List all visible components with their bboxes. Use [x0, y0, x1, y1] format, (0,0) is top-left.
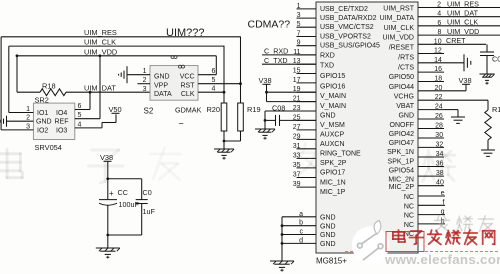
wire C_TXD — [262, 63, 316, 65]
resistor R18 — [40, 89, 66, 96]
svg-text:100uF: 100uF — [119, 200, 140, 209]
svg-text:SRV054: SRV054 — [35, 143, 62, 152]
svg-text:MIC_1P: MIC_1P — [320, 189, 346, 196]
svg-text:VCHG: VCHG — [394, 94, 414, 101]
svg-text:VPP: VPP — [154, 82, 168, 89]
svg-text:10: 10 — [434, 38, 442, 45]
label C0 bottom — [143, 188, 152, 197]
capacitor C0 bottom — [106, 200, 147, 237]
svg-text:17: 17 — [293, 77, 301, 84]
svg-text:V_MAIN: V_MAIN — [320, 93, 346, 100]
svg-text:5: 5 — [297, 21, 301, 28]
svg-text:GND: GND — [320, 223, 336, 230]
svg-text:SPK_2P: SPK_2P — [320, 160, 347, 167]
ground at S2 pin1 — [119, 66, 127, 83]
svg-text:6: 6 — [78, 103, 82, 110]
ic UIM socket S2 — [150, 66, 198, 101]
svg-text:C0: C0 — [143, 188, 152, 197]
svg-text:UIM_VDD: UIM_VDD — [447, 27, 479, 36]
labels left column MG815+ — [320, 6, 380, 248]
watermark logo circle — [352, 221, 389, 264]
ground under CRET cap — [480, 74, 495, 85]
wire V38 to V_MAIN pins — [265, 84, 316, 101]
svg-text:CLK: CLK — [181, 91, 195, 98]
svg-text:MG815+: MG815+ — [316, 257, 347, 266]
svg-text:UIM_CLK: UIM_CLK — [384, 25, 415, 32]
svg-text:6: 6 — [437, 20, 441, 27]
svg-text:UIM_RST: UIM_RST — [383, 6, 414, 13]
label C_TXD — [264, 56, 288, 65]
svg-text:RST: RST — [181, 82, 196, 89]
svg-text:USB_CE/TXD2: USB_CE/TXD2 — [320, 6, 368, 13]
svg-text:R20: R20 — [206, 105, 220, 114]
wire cap loop — [108, 179, 142, 200]
label SRV054 — [35, 143, 62, 152]
pin 3 S2 DATA — [143, 86, 147, 93]
wire GND pin24 — [444, 110, 458, 117]
svg-text:4: 4 — [78, 121, 82, 128]
svg-text:USB_DATA/RXD2: USB_DATA/RXD2 — [320, 15, 377, 22]
svg-text:20: 20 — [435, 85, 443, 92]
capacitor C08 — [265, 115, 316, 126]
svg-text:4: 4 — [212, 85, 216, 92]
pins 1-39 left of MG815+ — [293, 3, 316, 188]
svg-text:39: 39 — [293, 181, 301, 188]
svg-text:40: 40 — [436, 180, 444, 187]
pin 5 SRV054 — [75, 112, 100, 119]
resistor R17 — [485, 100, 491, 150]
svg-text:GND: GND — [320, 232, 336, 239]
svg-text:TXD: TXD — [320, 63, 334, 70]
wire UIM_RES right — [444, 7, 500, 9]
svg-text:C_TXD: C_TXD — [264, 56, 288, 65]
pin 2 SRV054 — [7, 115, 34, 122]
svg-text:b: b — [299, 220, 303, 227]
svg-text:C0: C0 — [492, 55, 500, 64]
svg-text:GPIO15: GPIO15 — [320, 73, 345, 80]
svg-text:UIM_DAT: UIM_DAT — [447, 9, 479, 18]
ground at pin24 — [451, 117, 465, 123]
svg-text:V50: V50 — [109, 105, 122, 114]
svg-text:18: 18 — [434, 76, 442, 83]
svg-text:/RESET: /RESET — [389, 44, 415, 51]
power label V50 — [109, 105, 122, 114]
power label V38 mid — [259, 76, 272, 85]
label 1uF — [143, 207, 156, 216]
svg-text:SPK_1P: SPK_1P — [388, 159, 415, 166]
pin 6 SRV054 — [75, 103, 90, 110]
svg-text:MIC_1N: MIC_1N — [320, 179, 346, 186]
pin 2 S2 VPP — [138, 77, 151, 84]
svg-text:34: 34 — [436, 151, 444, 158]
label R19 — [247, 105, 261, 114]
svg-text:GND: GND — [320, 214, 336, 221]
svg-text:C08: C08 — [272, 103, 285, 112]
label + CC — [109, 188, 128, 198]
pin 5 S2 RST — [198, 77, 242, 85]
svg-text:21: 21 — [293, 96, 301, 103]
svg-text:2: 2 — [437, 2, 441, 9]
wire UIM_DAT right — [444, 16, 500, 18]
svg-text:9: 9 — [297, 40, 301, 47]
resistor R20 — [221, 46, 227, 141]
svg-text:IO3: IO3 — [56, 127, 67, 134]
label 100uF — [119, 200, 140, 209]
label CRET — [446, 36, 466, 45]
title CDMA?? — [248, 19, 291, 31]
svg-text:GPIO44: GPIO44 — [389, 84, 414, 91]
ic SRV054 SR2 — [33, 103, 74, 139]
label MG815+ — [316, 257, 347, 266]
svg-text:GPIO16: GPIO16 — [320, 83, 345, 90]
svg-text:V38: V38 — [259, 76, 272, 85]
wire UIM_CLK right — [444, 25, 500, 27]
ground bottom left — [96, 248, 120, 259]
watermark outline text — [434, 216, 493, 232]
svg-text:f: f — [443, 199, 445, 206]
svg-text:2: 2 — [26, 115, 30, 122]
svg-text:MIC_2P: MIC_2P — [389, 184, 415, 191]
label UIM_VDD right — [447, 27, 479, 36]
svg-text:REF: REF — [55, 119, 69, 126]
svg-text:GND: GND — [36, 119, 52, 126]
wire V50 stub — [102, 114, 116, 128]
svg-text:1: 1 — [297, 3, 301, 10]
svg-text:6: 6 — [212, 68, 216, 75]
label C0 right — [492, 55, 500, 64]
label UIM_VDD — [84, 47, 117, 56]
wire DAT to SRV pin6 — [89, 91, 92, 110]
faint watermark characters — [0, 143, 455, 182]
pin 4 S2 CLK — [198, 85, 225, 93]
watermark url text — [384, 252, 500, 267]
svg-text:12: 12 — [434, 48, 442, 55]
label UIM_DAT right — [447, 9, 479, 18]
ground under C08 — [255, 129, 275, 140]
resistor R19 — [238, 37, 244, 142]
wire UIM_VDD net — [16, 54, 217, 92]
svg-text:32: 32 — [435, 141, 443, 148]
label UIM_DAT — [84, 84, 116, 93]
pin 1 SRV054 — [9, 106, 34, 113]
label UIM_CLK — [84, 38, 116, 47]
svg-text:GND: GND — [320, 113, 336, 120]
svg-text:V_MAIN: V_MAIN — [320, 103, 346, 110]
svg-text:36: 36 — [436, 161, 444, 168]
svg-text:V_MSM: V_MSM — [320, 122, 345, 129]
svg-text:USB_VMC/CTS2: USB_VMC/CTS2 — [320, 24, 374, 31]
svg-text:16: 16 — [434, 66, 442, 73]
svg-text:3: 3 — [297, 12, 301, 19]
svg-text:19: 19 — [293, 86, 301, 93]
wire UIM_RES net — [1, 37, 240, 130]
svg-text:24: 24 — [435, 104, 443, 111]
contact symbol at pin14 — [444, 54, 471, 71]
svg-text:13: 13 — [293, 58, 301, 65]
svg-text:NC: NC — [404, 222, 414, 229]
watermark red dashes — [345, 251, 498, 253]
svg-text:SPK_1N: SPK_1N — [387, 149, 414, 156]
svg-text:~: ~ — [179, 118, 184, 128]
svg-text:5: 5 — [212, 77, 216, 84]
watermark red text — [393, 230, 495, 245]
svg-text:22: 22 — [435, 94, 443, 101]
svg-text:DATA: DATA — [154, 91, 172, 98]
svg-text:CDMA??: CDMA?? — [248, 19, 291, 31]
svg-text:a: a — [299, 211, 303, 218]
svg-text:1uF: 1uF — [143, 207, 156, 216]
label UIM_RES right — [447, 0, 479, 8]
svg-text:R19: R19 — [247, 105, 261, 114]
svg-text:2: 2 — [143, 77, 147, 84]
svg-text:NC: NC — [404, 213, 414, 220]
svg-text:37: 37 — [293, 172, 301, 179]
svg-text:e: e — [441, 190, 445, 197]
label c8 mark above S2 — [171, 56, 177, 59]
label GDMAK — [175, 106, 202, 115]
svg-text:d: d — [299, 237, 303, 244]
svg-text:/RTS: /RTS — [398, 55, 414, 62]
svg-text:15: 15 — [293, 68, 301, 75]
svg-text:NC: NC — [404, 203, 414, 210]
wire UIM_VDD right — [444, 34, 500, 36]
svg-text:GND: GND — [398, 112, 414, 119]
svg-text:33: 33 — [293, 152, 301, 159]
pin 4 SRV054 — [75, 121, 102, 128]
svg-text:GPIO50: GPIO50 — [389, 74, 414, 81]
svg-text:USB_VPORTS2: USB_VPORTS2 — [320, 34, 371, 41]
svg-text:USB_SUS/GPIO45: USB_SUS/GPIO45 — [320, 42, 380, 49]
wire GND pin23 — [264, 111, 316, 129]
svg-text:UIM_CLK: UIM_CLK — [447, 18, 478, 27]
pins e-h right of MG815+ — [418, 190, 445, 225]
svg-text:30: 30 — [435, 132, 443, 139]
capacitor C0 on CRET — [480, 44, 494, 74]
label tilde under S2 — [179, 118, 184, 128]
label C08 — [272, 103, 285, 112]
svg-text:VCC: VCC — [180, 74, 195, 81]
svg-text:AUXCP: AUXCP — [320, 132, 344, 139]
svg-text:R18: R18 — [42, 81, 56, 90]
svg-text:GPIO17: GPIO17 — [320, 170, 345, 177]
svg-text:IO2: IO2 — [37, 127, 48, 134]
svg-text:31: 31 — [293, 143, 301, 150]
label R20 — [206, 105, 220, 114]
label C_RXD — [264, 47, 288, 56]
svg-text:IO4: IO4 — [56, 110, 67, 117]
svg-text:7: 7 — [297, 31, 301, 38]
svg-text:8: 8 — [438, 29, 442, 36]
svg-text:NC: NC — [404, 194, 414, 201]
svg-text:35: 35 — [293, 162, 301, 169]
svg-text:UIM_RES: UIM_RES — [84, 28, 117, 37]
svg-text:27: 27 — [293, 124, 301, 131]
svg-text:28: 28 — [435, 123, 443, 130]
ground under R20 — [214, 149, 234, 160]
svg-text:5: 5 — [78, 112, 82, 119]
label S2 — [144, 107, 154, 116]
svg-text:GND: GND — [154, 74, 170, 81]
svg-text:CC: CC — [118, 188, 128, 197]
labels right column MG815+ — [380, 6, 415, 239]
svg-text:V38: V38 — [459, 76, 472, 85]
svg-text:R17: R17 — [492, 105, 500, 114]
capacitor CC 100uF — [99, 200, 117, 248]
label R18 — [42, 81, 56, 90]
pins 2-40 right of MG815+ — [418, 2, 444, 187]
svg-text:26: 26 — [435, 113, 443, 120]
svg-text:23: 23 — [293, 105, 301, 112]
svg-text:MIC_2N: MIC_2N — [388, 177, 414, 184]
label UIM_RES — [84, 28, 117, 37]
svg-text:/CTS: /CTS — [398, 64, 414, 71]
svg-text:V38: V38 — [100, 153, 113, 162]
svg-text:14: 14 — [434, 57, 442, 64]
svg-text:GPIO54: GPIO54 — [389, 168, 414, 175]
title UIM??? — [166, 27, 205, 39]
svg-text:3: 3 — [26, 123, 30, 130]
svg-text:c: c — [300, 229, 304, 236]
svg-text:UIM???: UIM??? — [166, 27, 205, 39]
svg-text:GPIO47: GPIO47 — [389, 140, 414, 147]
label SR2 — [35, 96, 49, 105]
svg-text:3: 3 — [143, 86, 147, 93]
svg-text:www.elecfans.com: www.elecfans.com — [384, 252, 500, 267]
svg-text:25: 25 — [293, 114, 301, 121]
svg-text:ONOFF: ONOFF — [390, 122, 415, 129]
svg-text:38: 38 — [436, 170, 444, 177]
svg-text:1: 1 — [26, 106, 30, 113]
svg-text:1: 1 — [143, 68, 147, 75]
svg-text:AUXCN: AUXCN — [320, 141, 345, 148]
pins a-d left of MG815+ — [282, 211, 316, 245]
wire V38 rail down — [106, 161, 109, 199]
ground under R17 — [481, 150, 495, 156]
wire R20 R19 bottoms — [223, 140, 241, 149]
pin 1 S2 GND — [127, 68, 150, 75]
power label V38 bottom — [100, 153, 113, 162]
wire UIM_CLK net — [9, 46, 224, 112]
svg-text:VBAT: VBAT — [396, 103, 414, 110]
svg-text:UIM_RES: UIM_RES — [447, 0, 479, 8]
label c8 mark inside S2 — [179, 65, 185, 68]
svg-text:GPIO42: GPIO42 — [389, 131, 414, 138]
svg-text:GND: GND — [320, 241, 336, 248]
svg-text:g: g — [441, 209, 445, 216]
label R17 — [492, 105, 500, 114]
ic MG815+ body — [316, 2, 418, 253]
svg-text:29: 29 — [293, 133, 301, 140]
svg-text:UIM_DATA: UIM_DATA — [380, 15, 415, 22]
svg-text:RXD: RXD — [320, 52, 335, 59]
pin 6 S2 VCC — [198, 56, 216, 75]
pin 3 SRV054 — [1, 123, 33, 130]
svg-text:C_RXD: C_RXD — [264, 47, 288, 56]
ground at SRV054 pin2 — [0, 116, 7, 127]
wire C_RXD — [262, 54, 316, 56]
label UIM_CLK right — [447, 18, 478, 27]
svg-text:GDMAK: GDMAK — [175, 106, 202, 115]
ground under abcd bus — [270, 261, 294, 272]
svg-text:+: + — [109, 189, 114, 198]
wire VBAT pin22 — [444, 99, 488, 101]
svg-text:UIM_CLK: UIM_CLK — [84, 38, 116, 47]
svg-text:4: 4 — [437, 11, 441, 18]
wire abcd ground bus — [281, 217, 284, 261]
wire UIM_DAT net — [17, 91, 150, 93]
wire VDD to REF — [99, 54, 102, 118]
watermark red box — [386, 232, 424, 252]
svg-text:S2: S2 — [144, 107, 154, 116]
wire CRET — [444, 43, 486, 45]
svg-text:RING_TONE: RING_TONE — [320, 151, 361, 158]
svg-text:UIM_VDD: UIM_VDD — [382, 35, 414, 42]
svg-text:IO1: IO1 — [37, 110, 48, 117]
svg-text:11: 11 — [293, 49, 300, 56]
power label V38 right — [444, 76, 472, 91]
svg-text:CRET: CRET — [446, 36, 466, 45]
